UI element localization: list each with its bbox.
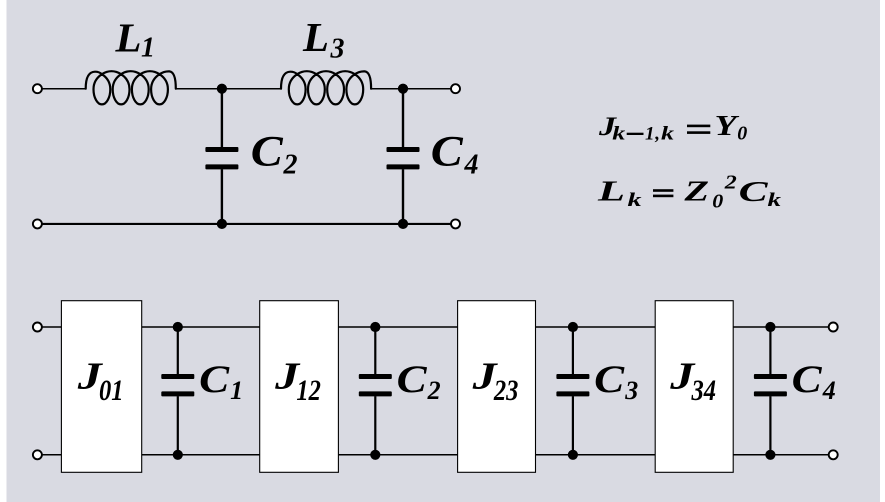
rail bottom segment 2	[337, 454, 458, 456]
svg-text:23: 23	[493, 374, 518, 407]
rail bottom segment 4	[732, 454, 830, 456]
terminal bottom-right	[451, 219, 460, 228]
svg-text:0: 0	[737, 123, 747, 145]
svg-text:0: 0	[712, 190, 723, 212]
capacitor C1 (bottom)	[177, 327, 179, 374]
rail bottom segment 3	[535, 454, 657, 456]
terminal bottom-circuit right-top	[829, 323, 838, 332]
svg-text:Z: Z	[683, 177, 709, 208]
capacitor C2 (bottom)	[374, 327, 376, 374]
node top cap C2	[370, 322, 380, 332]
svg-text:12: 12	[296, 374, 321, 407]
inverter box J34	[655, 301, 733, 473]
svg-text:k: k	[628, 190, 643, 211]
node bottom-1	[217, 219, 227, 229]
svg-text:1: 1	[141, 33, 155, 64]
terminal top-right	[451, 84, 460, 93]
capacitor C2	[221, 89, 223, 148]
svg-text:1: 1	[645, 123, 655, 144]
svg-text:k: k	[612, 123, 626, 144]
node bottom cap C2	[370, 450, 380, 460]
svg-text:34: 34	[691, 374, 716, 407]
rail top segment 2	[337, 326, 458, 328]
svg-text:k: k	[661, 123, 675, 144]
svg-text:3: 3	[624, 376, 638, 405]
svg-text:k: k	[768, 190, 782, 211]
terminal bottom-circuit right-bottom	[829, 450, 838, 459]
rail top segment 4	[732, 326, 830, 328]
capacitor C4	[402, 89, 404, 148]
svg-text:L: L	[114, 14, 141, 60]
rail bottom segment 1	[141, 454, 261, 456]
svg-text:L: L	[596, 177, 625, 208]
svg-text:C: C	[792, 358, 823, 401]
rail top segment 3	[535, 326, 657, 328]
svg-text:C: C	[594, 358, 625, 401]
wire top-left	[42, 88, 86, 90]
svg-text:C: C	[199, 358, 230, 401]
node bottom cap C3	[568, 450, 578, 460]
svg-text:4: 4	[822, 376, 836, 405]
inverter box J23	[458, 301, 536, 473]
node bottom cap C4	[765, 450, 775, 460]
terminal top-left	[33, 84, 42, 93]
capacitor C3 (bottom)	[572, 327, 574, 374]
node top cap C4	[765, 322, 775, 332]
capacitor C4 (bottom)	[769, 327, 771, 374]
node bottom-2	[398, 219, 408, 229]
svg-text:C: C	[397, 358, 428, 401]
inverter box J12	[260, 301, 339, 473]
inductor L1	[86, 71, 176, 104]
inverter box J01	[61, 301, 141, 473]
node top-1	[217, 84, 227, 94]
svg-text:3: 3	[330, 33, 345, 64]
svg-text:L: L	[302, 14, 329, 60]
svg-text:2: 2	[283, 149, 298, 180]
svg-text:C: C	[431, 129, 464, 176]
node top-2	[398, 84, 408, 94]
bottom rail of top circuit	[42, 223, 452, 225]
terminal bottom-circuit left-top	[33, 323, 42, 332]
svg-text:C: C	[251, 129, 284, 176]
svg-text:,: ,	[654, 123, 660, 144]
rail top segment 1	[141, 326, 261, 328]
stub left-top	[42, 326, 63, 328]
inductor L3	[281, 71, 371, 104]
wire L3 to terminal	[371, 88, 451, 90]
terminal bottom-left	[33, 219, 42, 228]
svg-text:2: 2	[427, 376, 441, 405]
svg-text:1: 1	[230, 376, 243, 405]
node top cap C3	[568, 322, 578, 332]
stub left-bottom	[42, 454, 63, 456]
node top cap C1	[173, 322, 183, 332]
node bottom cap C1	[173, 450, 183, 460]
terminal bottom-circuit left-bottom	[33, 450, 42, 459]
svg-text:01: 01	[99, 374, 124, 407]
wire L1 to L3	[176, 88, 281, 90]
svg-text:2: 2	[724, 171, 737, 193]
svg-text:C: C	[739, 177, 768, 208]
svg-text:4: 4	[464, 149, 479, 180]
